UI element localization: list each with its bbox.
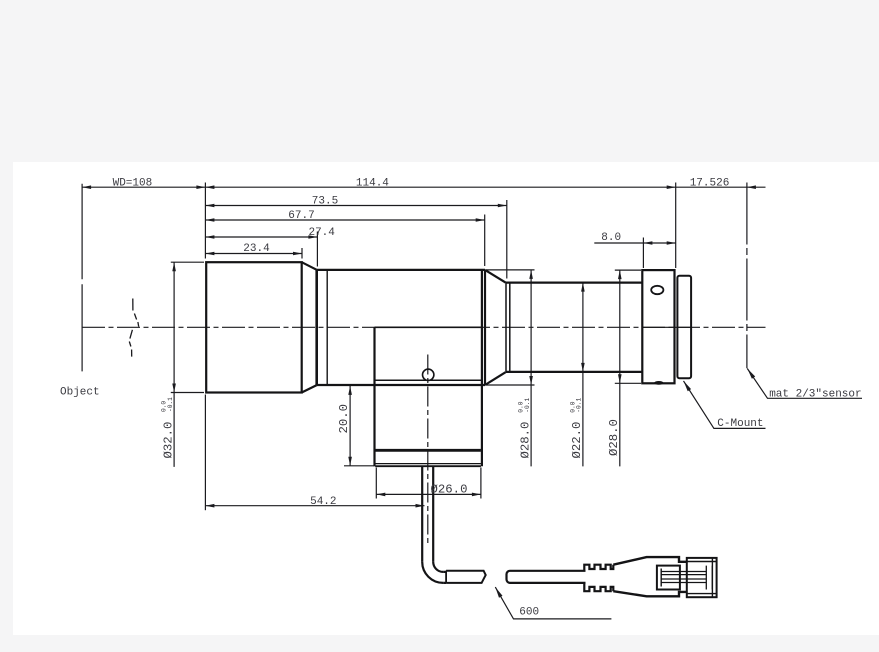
extension line 114.4 right / 8.0 right [675,183,677,269]
rear tube phi22 bottom edge [506,371,643,373]
dimension 8.0 line [594,242,675,244]
svg-text:54.2: 54.2 [310,496,336,508]
connector housing inner lines [687,558,717,597]
vertical axis of mount tube [427,355,429,546]
svg-text:Object: Object [60,387,100,399]
svg-text:Ø22.0: Ø22.0 [570,422,584,459]
extension lines phi26 [376,468,481,499]
svg-text:Ø28.0: Ø28.0 [518,422,532,459]
mid barrel phi28 top edge [317,269,485,271]
sensor plane line [746,183,748,369]
arrowhead 17.526 right [747,185,756,189]
arrowhead leader sensor [747,369,755,379]
mid barrel phi28 bottom edge [317,384,485,386]
dimension 20.0 line [349,386,351,466]
mount tube bottom edge [375,465,481,467]
c-mount flange block [642,270,674,383]
svg-text:20.0: 20.0 [337,404,351,434]
arrowheads 27.4 [205,235,214,239]
dimension 67.7 line [205,219,484,221]
connector housing outer [687,558,717,597]
svg-text:mat 2/3″sensor: mat 2/3″sensor [769,389,861,401]
extension lines phi28 cmount [615,270,641,383]
arrowheads 23.4 [205,252,214,256]
extension line 54.2 left (barrel edge extended) [204,395,206,511]
receptacle inner left line [660,569,662,587]
extension line 73.5 right [506,200,508,279]
extension line 23.4 right [301,248,303,259]
focus ring line thick [315,270,318,385]
object plane line [81,184,83,372]
arrowheads 73.5 [205,204,214,208]
svg-text:WD=108: WD=108 [113,177,153,189]
arrowheads 54.2 [205,504,214,508]
dimension WD=108 line [82,186,205,188]
arrowheads phi32 [172,262,176,271]
dimension 27.4 line [205,236,317,238]
clamp block upper inner line [375,379,482,381]
arrowheads phi22 [581,283,585,292]
arrowheads phi26 [376,493,385,497]
dimension 17.526 line [676,186,766,188]
arrowheads phi28 cmount [618,270,622,279]
dimension 23.4 line [205,253,302,255]
mount tube lower thin line [375,463,481,465]
rear ring lines [506,283,510,372]
dimension phi22 line [582,283,584,467]
extension line 67.7 right [484,215,486,267]
rear tube phi22 top edge [506,282,643,284]
svg-text:23.4: 23.4 [243,243,270,255]
cable vertical section [422,467,433,562]
svg-text:600: 600 [519,607,539,619]
taper mid to rear top [485,270,506,283]
dimension phi28 cmount line [619,270,621,466]
arrowheads phi28 mid [529,270,533,279]
arrowhead WD=108 right [196,185,205,189]
cable separator line [445,571,447,583]
arrowhead leader 600 [495,587,502,598]
front barrel phi32 [206,262,302,392]
taper front to mid top [302,262,317,270]
svg-text:Ø28.0: Ø28.0 [607,419,621,456]
bottom set screw blob [654,381,663,385]
svg-text:67.7: 67.7 [288,210,314,222]
dimension phi26 line [376,493,481,495]
connector boot top [613,557,687,565]
extension lines phi32 [171,262,204,392]
svg-text:27.4: 27.4 [308,227,335,239]
svg-text:8.0: 8.0 [601,232,621,244]
arrowheads 20.0 [348,386,352,395]
svg-text:Ø32.0: Ø32.0 [161,422,175,459]
extension lines phi28 mid [486,270,535,385]
extension line 8.0 left [642,238,644,269]
taper front to mid bottom [302,385,317,392]
cable stub after bend [443,572,446,583]
arrowhead 114.4 right [667,185,676,189]
arrowhead 114.4 left [205,185,214,189]
taper mid to rear bottom [485,372,506,385]
white drawing sheet [13,162,879,635]
arrowhead WD=108 left [82,185,91,189]
svg-text:17.526: 17.526 [690,177,730,189]
extension line 27.4 right [316,232,318,267]
svg-text:73.5: 73.5 [312,196,338,208]
extension line lens front top [204,183,206,259]
contact end bars [706,566,712,590]
optical axis center line [82,326,766,328]
cable bend inner [433,562,443,572]
mount tube thick band [375,449,481,452]
set screw circle on mount tube [423,369,434,380]
extension line 20.0 bottom [344,465,375,467]
svg-text:Ø26.0: Ø26.0 [431,483,468,497]
cable bend outer [422,562,443,583]
connector receptacle inner rect [657,566,680,590]
contact blades [661,572,706,583]
dimension 54.2 line [205,505,424,507]
cable to connector segment [507,571,586,583]
arrowhead leader C-Mount [684,381,692,391]
svg-text:114.4: 114.4 [356,177,389,189]
leader line 600 [495,587,611,619]
clamp block top edge on axis [375,326,482,328]
dimension 114.4 line [205,186,675,188]
focus ring line thin [326,270,328,385]
beam break symbol [129,299,138,357]
connector strain relief ribs [584,565,613,592]
dimension phi32 line [173,262,175,467]
dimension phi28 mid line [530,270,532,467]
arrowheads 8.0 [643,241,652,245]
c-mount thread protrusion [677,276,691,379]
c-mount block mid parting line [642,326,691,328]
leader line sensor with underline [747,369,862,399]
clamp block left edge [373,327,375,466]
arrowheads 67.7 [205,218,214,222]
mid barrel right end line [484,270,486,385]
svg-text:C-Mount: C-Mount [717,418,763,430]
leader line C-Mount with underline [684,381,766,429]
clamp block right edge / mid barrel end ring [481,270,483,466]
set screw hole ellipse on c-mount [651,286,663,294]
cable tip piece [446,571,486,583]
dimension 73.5 line [205,205,506,207]
connector boot bottom [613,591,687,596]
